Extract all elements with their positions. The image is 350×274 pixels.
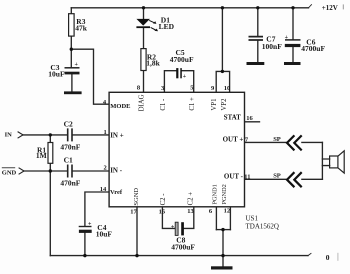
wire rail end tick xyxy=(308,253,311,255)
wire C2 to pin 1 xyxy=(72,134,109,136)
artifact mark bottom right xyxy=(337,253,338,261)
svg-text:SP: SP xyxy=(273,173,281,180)
wire OUT- pin 11 xyxy=(245,178,288,180)
wire rail to VP fork xyxy=(221,8,223,72)
IC U1 TDA1562Q box xyxy=(109,92,244,207)
wire R3 bottom to node A xyxy=(70,36,72,49)
wire D1 cathode to R2 xyxy=(143,28,145,48)
wire node A to C3 xyxy=(70,49,72,67)
svg-text:+: + xyxy=(171,224,175,230)
IC designator US1 TDA1562Q xyxy=(246,214,279,230)
connector SP lower chevrons xyxy=(287,172,302,187)
svg-text:+12V: +12V xyxy=(322,4,338,12)
wire rail to D1 anode xyxy=(143,8,145,19)
node D1 rail junction xyxy=(142,6,145,9)
ground bar under C6 xyxy=(284,62,301,65)
wire IN to C2 xyxy=(23,134,67,136)
node C7 rail junction xyxy=(256,6,259,9)
svg-text:10uF: 10uF xyxy=(96,229,113,238)
wire speaker terminal stubs xyxy=(322,159,329,166)
svg-text:Vref: Vref xyxy=(110,189,123,196)
node A R3/C3/MODE junction xyxy=(70,48,73,51)
wire SGND pin 17 to rail xyxy=(136,207,138,256)
wire node A to MODE pin 4 xyxy=(71,49,109,104)
svg-text:47k: 47k xyxy=(75,23,88,32)
svg-text:MODE: MODE xyxy=(110,103,130,110)
wire C7 to ground bar xyxy=(257,41,259,63)
svg-text:15: 15 xyxy=(159,209,166,216)
svg-text:2: 2 xyxy=(104,165,107,172)
wire C4 to rail xyxy=(84,233,86,256)
svg-text:DIAG: DIAG xyxy=(138,94,145,111)
svg-text:16: 16 xyxy=(246,115,253,122)
LED D1 xyxy=(136,16,174,32)
svg-text:OUT +: OUT + xyxy=(223,136,244,144)
svg-text:GND: GND xyxy=(2,169,17,176)
wire OUT+ to speaker xyxy=(302,141,323,143)
svg-text:470nF: 470nF xyxy=(60,142,80,151)
wire speaker vertical xyxy=(321,142,323,179)
capacitor C5 xyxy=(170,48,194,80)
wire GND node down xyxy=(49,171,51,256)
svg-text:100nF: 100nF xyxy=(262,42,282,51)
svg-text:470nF: 470nF xyxy=(60,179,80,188)
node SGND rail junction xyxy=(135,254,138,257)
wire R3 top stub xyxy=(70,8,72,14)
wire C6 to ground bar xyxy=(292,47,294,62)
wire OUT- to speaker xyxy=(302,178,323,180)
wire rail to ground symbol xyxy=(222,256,224,267)
svg-text:VP1: VP1 xyxy=(211,99,218,111)
node IN junction xyxy=(49,133,52,136)
wire bottom ground rail xyxy=(50,255,308,257)
svg-text:+: + xyxy=(75,62,79,68)
wire R2 to DIAG pin 8 xyxy=(143,71,145,93)
node VP rail junction xyxy=(221,6,224,9)
node GND junction xyxy=(49,169,52,172)
svg-text:IN -: IN - xyxy=(110,167,123,175)
svg-text:SGND: SGND xyxy=(133,188,140,206)
svg-text:17: 17 xyxy=(130,208,137,215)
svg-text:C2 +: C2 + xyxy=(187,192,194,206)
svg-text:10: 10 xyxy=(224,85,231,92)
svg-text:STAT: STAT xyxy=(224,114,242,122)
capacitor C8 xyxy=(171,222,195,251)
svg-text:PGND2: PGND2 xyxy=(221,184,228,204)
svg-text:13: 13 xyxy=(187,208,194,215)
svg-text:11: 11 xyxy=(244,173,250,180)
svg-text:C2: C2 xyxy=(64,119,73,128)
svg-text:C1 +: C1 + xyxy=(189,97,196,111)
node C4 rail junction xyxy=(83,254,86,257)
wire +12V top rail xyxy=(71,7,308,9)
connector IN xyxy=(5,132,23,139)
capacitor C6 xyxy=(285,35,326,53)
wire +12V terminal tick xyxy=(309,5,312,8)
svg-text:C1: C1 xyxy=(64,155,73,164)
wire OUT+ pin 7 xyxy=(245,141,288,143)
node PGND fork junction xyxy=(221,228,224,231)
svg-text:4700uF: 4700uF xyxy=(170,55,194,64)
svg-text:C1 -: C1 - xyxy=(160,98,167,111)
wire GND to C1 xyxy=(24,170,67,172)
node PGND rail junction xyxy=(221,254,224,257)
wire C1 to pin 2 xyxy=(72,170,109,172)
capacitor C4 xyxy=(79,221,113,238)
artifact mark top right xyxy=(343,4,344,9)
wire C3 to ground bar xyxy=(71,74,73,91)
capacitor C7 xyxy=(249,34,283,51)
wire pin 3 to C5 xyxy=(164,71,176,93)
svg-text:C2 -: C2 - xyxy=(160,193,167,206)
svg-text:+: + xyxy=(183,74,187,80)
speaker LS1 xyxy=(330,151,345,173)
svg-text:4700uF: 4700uF xyxy=(171,243,195,252)
wire R1 stubs xyxy=(49,135,51,171)
svg-text:1: 1 xyxy=(104,129,107,136)
svg-text:LED: LED xyxy=(159,22,175,31)
capacitor C1 xyxy=(60,155,80,187)
wire Vref pin 14 to C4 xyxy=(85,192,109,226)
ground bar under C7 xyxy=(247,62,265,65)
wire pin 13 to C8 xyxy=(184,207,194,229)
svg-text:SP: SP xyxy=(273,136,281,143)
wire PGND1 pin 6 xyxy=(215,207,217,230)
wire STAT pin 16 stub xyxy=(245,121,260,123)
svg-text:PGND1: PGND1 xyxy=(212,184,219,204)
svg-text:IN: IN xyxy=(5,132,13,139)
svg-text:0: 0 xyxy=(326,253,330,262)
node VP fork junction xyxy=(221,70,224,73)
svg-text:VP2: VP2 xyxy=(221,98,228,111)
svg-text:US1: US1 xyxy=(246,214,259,222)
svg-text:4700uF: 4700uF xyxy=(301,44,325,53)
wire PGND2 pin 12 xyxy=(229,207,231,230)
wire PGND to rail xyxy=(222,230,224,256)
svg-text:14: 14 xyxy=(100,186,107,193)
wire VP1/VP2 fork pins 9,10 xyxy=(216,71,229,92)
wire PGND join xyxy=(216,229,230,231)
resistor R3 xyxy=(69,14,88,36)
svg-text:1M: 1M xyxy=(36,151,47,160)
ground symbol bottom xyxy=(211,266,233,269)
connector GND xyxy=(2,168,24,177)
wire pin 15 to C8 xyxy=(162,207,175,229)
ground bar under C3 xyxy=(64,91,82,94)
wire C5 to pin 5 xyxy=(182,71,194,93)
svg-text:IN +: IN + xyxy=(110,131,124,139)
svg-text:OUT -: OUT - xyxy=(224,172,244,180)
capacitor C2 xyxy=(60,119,80,151)
resistor R2 xyxy=(141,49,161,71)
wire rail to C7 xyxy=(257,8,259,36)
svg-text:12: 12 xyxy=(224,208,231,215)
capacitor C3 xyxy=(48,62,79,79)
resistor R1 xyxy=(36,143,53,164)
node C6 rail junction xyxy=(291,6,294,9)
connector SP upper chevrons xyxy=(287,135,302,150)
wire rail to C6 xyxy=(292,8,294,39)
svg-text:10uF: 10uF xyxy=(48,70,65,79)
svg-text:TDA1562Q: TDA1562Q xyxy=(246,223,279,231)
svg-text:1,8k: 1,8k xyxy=(146,59,160,68)
